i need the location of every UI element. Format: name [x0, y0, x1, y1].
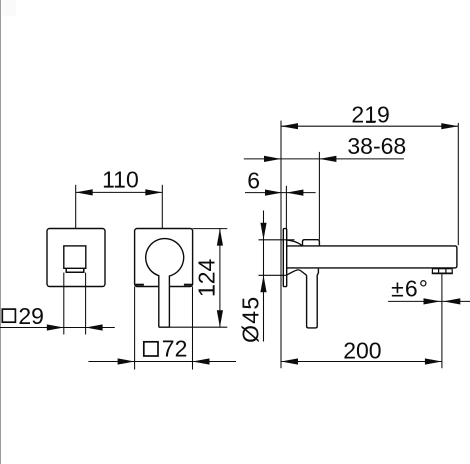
- wall plate S2: [135, 229, 193, 287]
- dimension square72: [88, 361, 236, 363]
- svg-text:±6°: ±6°: [391, 276, 429, 302]
- lever handle side profile: [307, 269, 319, 328]
- dimension 124: [219, 229, 221, 328]
- spout outlet rectangle: [64, 246, 86, 268]
- page border line left: [0, 0, 2, 464]
- extension lines dim 72: [134, 287, 136, 370]
- extension lines dim 124: [193, 228, 228, 230]
- svg-text:6: 6: [247, 168, 260, 194]
- dimension square29: [0, 327, 115, 329]
- dimension 200: [281, 361, 442, 363]
- svg-text:Ø45: Ø45: [238, 296, 264, 343]
- svg-text:29: 29: [18, 303, 44, 329]
- handle base cone: [287, 270, 307, 275]
- dimension 6: [245, 192, 316, 194]
- spout side profile: [287, 246, 457, 268]
- serif feet on digit 1 of 110: [104, 186, 113, 188]
- cartridge housing above spout: [287, 240, 320, 246]
- plate seam tab left: [135, 284, 144, 286]
- extension line spout tip (dim 219): [457, 123, 459, 245]
- handle pommel circle + lever: [146, 239, 184, 328]
- dimension plus-minus 6 deg: [388, 300, 470, 302]
- svg-text:110: 110: [102, 167, 139, 193]
- extension lines dim 29: [63, 273, 65, 335]
- extension line center S1 (dim 110 left): [75, 185, 77, 229]
- serif foot on digit 1 of 219: [366, 121, 375, 123]
- svg-text:124: 124: [194, 259, 220, 298]
- wall surface line: [280, 121, 282, 369]
- faint corner smudge: [2, 0, 16, 16]
- extension line rough-in body (dim 38-68): [318, 152, 320, 240]
- svg-text:72: 72: [162, 335, 188, 361]
- wall plate S1: [47, 229, 105, 287]
- spout lip: [66, 269, 84, 272]
- stream centerline: [441, 274, 443, 368]
- svg-text:38-68: 38-68: [347, 133, 406, 159]
- svg-text:200: 200: [343, 337, 381, 363]
- extension lines dim d45: [259, 239, 295, 241]
- extension line center S2 (dim 110 right): [161, 185, 163, 229]
- dimension d45: [263, 211, 265, 342]
- extension line plate front (dim 6): [285, 186, 287, 229]
- dimension 38-68: [244, 158, 404, 160]
- wall plate side profile: [283, 229, 286, 287]
- svg-text:219: 219: [351, 102, 389, 128]
- dimension 219: [281, 125, 458, 127]
- aerator: [432, 269, 452, 274]
- plate seam tab right: [184, 284, 192, 286]
- dimension 110: [76, 191, 163, 193]
- serif foot on digit 1 of 124 (rotated): [213, 285, 215, 294]
